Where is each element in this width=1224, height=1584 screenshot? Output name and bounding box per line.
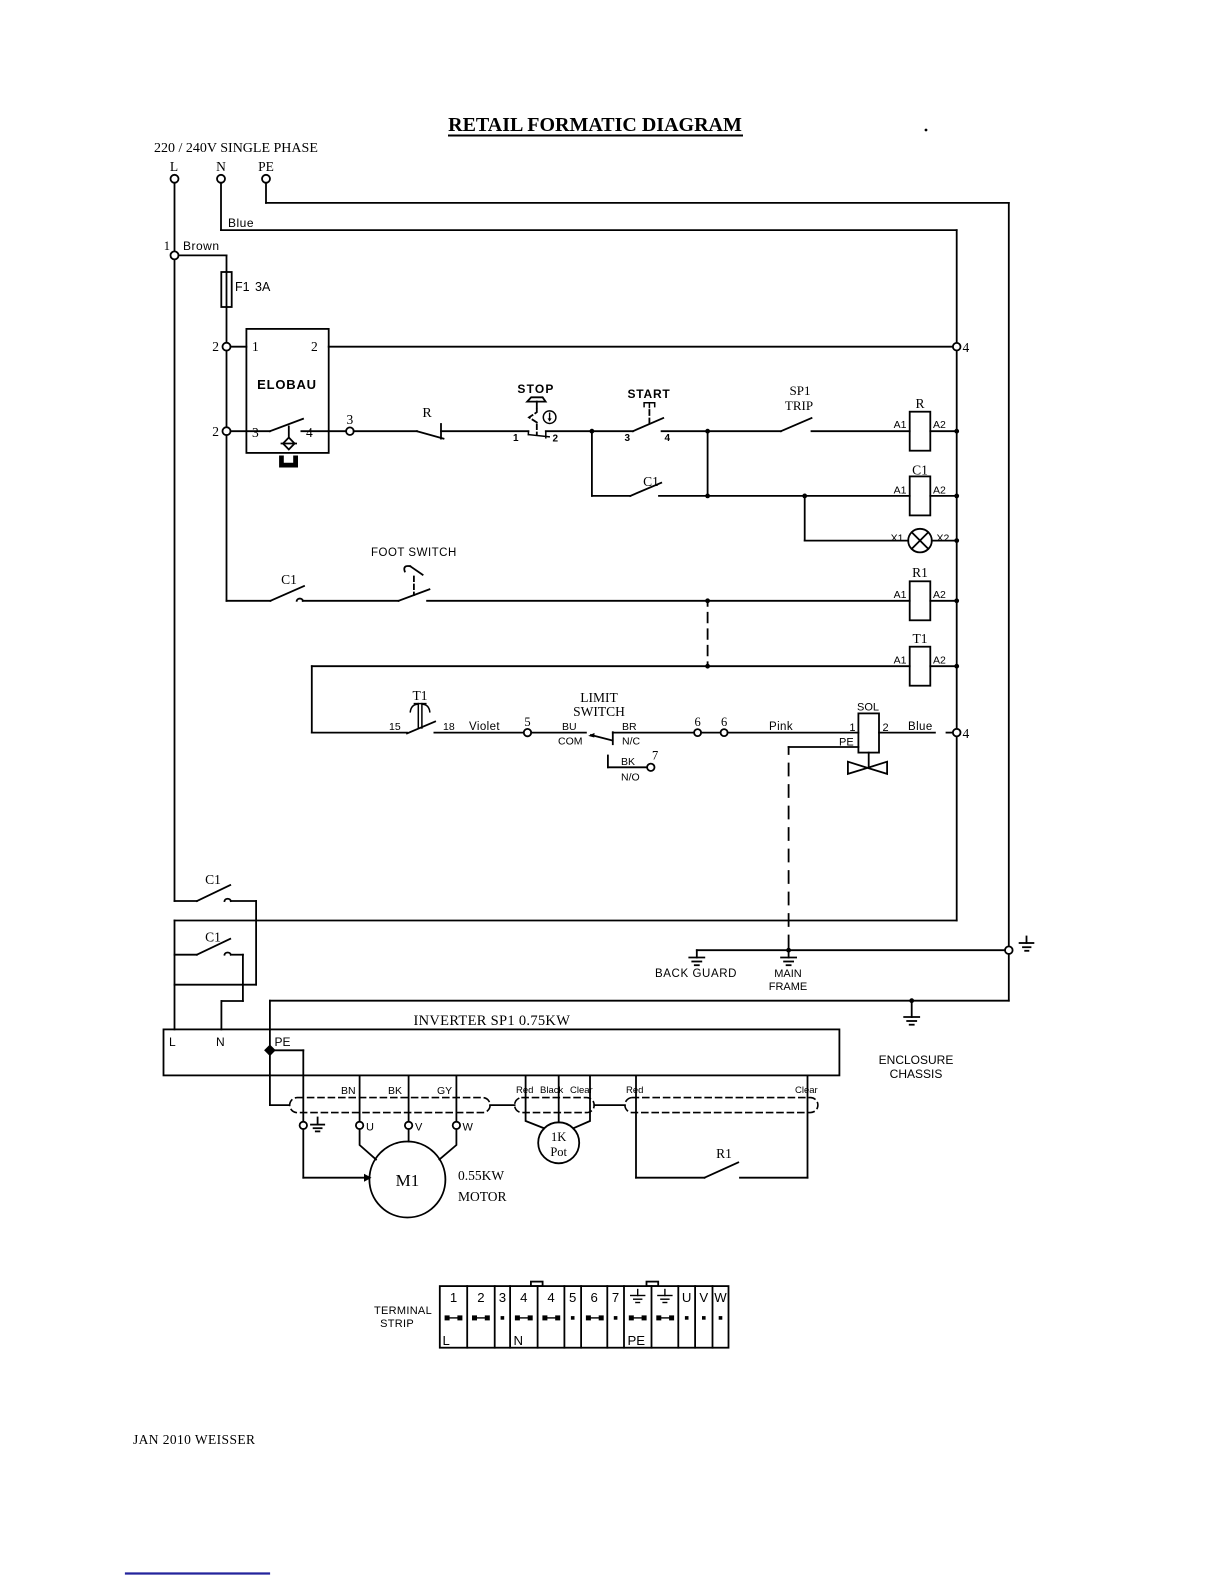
wire pot clear — [570, 1075, 593, 1128]
svg-text:CHASSIS: CHASSIS — [890, 1067, 943, 1081]
svg-text:TRIP: TRIP — [785, 398, 813, 413]
wire coil R to bus — [930, 430, 956, 432]
svg-text:2: 2 — [311, 339, 318, 354]
inverter SP1 box — [164, 1013, 840, 1075]
svg-text:BK: BK — [621, 756, 635, 768]
junction dot bus C1 — [954, 494, 959, 499]
svg-text:Pink: Pink — [769, 721, 793, 733]
wire C1b corner to N terminal — [221, 955, 243, 1030]
svg-text:C1: C1 — [205, 930, 221, 945]
contact C1 power b (NO) — [175, 930, 243, 955]
junction dot bus T1 — [954, 664, 959, 669]
svg-text:3: 3 — [499, 1290, 506, 1305]
svg-text:A1: A1 — [894, 419, 907, 431]
svg-text:COM: COM — [558, 736, 583, 748]
svg-text:JAN 2010 WEISSER: JAN 2010 WEISSER — [133, 1432, 255, 1447]
contact C1 power a (NO) — [175, 872, 257, 901]
wire coil C1 to bus — [930, 495, 956, 497]
svg-text:V: V — [699, 1290, 708, 1305]
svg-text:15: 15 — [389, 721, 401, 733]
terminal V — [405, 1122, 423, 1142]
svg-text:7: 7 — [612, 1290, 619, 1305]
svg-text:F1: F1 — [235, 280, 250, 294]
pushbutton START (NO) — [625, 387, 671, 444]
svg-text:R: R — [422, 406, 432, 421]
ground symbol right of PE circle — [1020, 937, 1034, 951]
svg-text:7: 7 — [652, 749, 658, 763]
svg-text:A1: A1 — [894, 655, 907, 667]
cable connector 3 — [625, 1098, 818, 1113]
node 6 terminal b — [721, 715, 728, 736]
node PE circle right — [1005, 946, 1013, 954]
wire L down to node — [174, 183, 176, 252]
svg-text:18: 18 — [443, 721, 455, 733]
wire fuse down to node 2 — [226, 307, 228, 343]
wire fuse line down to foot row — [227, 435, 271, 601]
svg-text:FOOT SWITCH: FOOT SWITCH — [371, 547, 457, 559]
safety diamond symbol — [282, 438, 297, 450]
svg-text:0.55KW: 0.55KW — [458, 1168, 504, 1183]
lamp X1 X2 — [891, 529, 950, 553]
wire C1 aux to coil C1 — [659, 495, 910, 497]
svg-text:GY: GY — [437, 1085, 452, 1097]
terminal strip label — [374, 1305, 432, 1330]
node 6 terminal a — [694, 715, 701, 736]
svg-text:V: V — [415, 1122, 423, 1134]
junction dot after STOP — [590, 429, 595, 434]
wire junction down to C1 aux rung — [591, 431, 593, 496]
svg-text:LIMIT: LIMIT — [580, 690, 618, 705]
wire right bus down to node 4 — [956, 230, 958, 343]
svg-text:STRIP: STRIP — [380, 1318, 414, 1330]
wire bus below node4 to long rung — [956, 736, 958, 920]
contact T1 timed (NO) — [389, 688, 455, 733]
magnet icon below ELOBAU — [279, 456, 298, 468]
svg-text:START: START — [627, 387, 670, 401]
svg-text:N: N — [216, 1035, 225, 1049]
svg-text:N/O: N/O — [621, 772, 640, 784]
svg-text:Brown: Brown — [183, 239, 220, 253]
svg-text:220 / 240V SINGLE PHASE: 220 / 240V SINGLE PHASE — [154, 141, 318, 156]
svg-text:1: 1 — [450, 1290, 457, 1305]
wire PE down — [265, 183, 267, 203]
svg-text:X2: X2 — [937, 533, 950, 545]
node 5 terminal — [524, 715, 531, 736]
wire SOL to node4 — [879, 732, 953, 734]
terminal N — [216, 159, 226, 183]
wire SP1 to coil R — [812, 430, 910, 432]
wire coil R1 to bus — [930, 600, 956, 602]
terminal strip box — [440, 1286, 729, 1348]
junction dot R1 rung — [705, 598, 710, 603]
svg-text:C1: C1 — [912, 463, 928, 478]
wire C1 to foot switch — [303, 600, 399, 602]
svg-text:SWITCH: SWITCH — [573, 704, 625, 719]
svg-text:2: 2 — [212, 424, 219, 439]
ground ENCLOSURE CHASSIS — [879, 1001, 954, 1081]
junction dot bus R1 — [954, 598, 959, 603]
svg-text:4: 4 — [665, 433, 671, 444]
svg-text:BN: BN — [341, 1085, 356, 1097]
cable connector 1 — [290, 1098, 490, 1113]
wire N down — [220, 183, 222, 230]
svg-text:FRAME: FRAME — [769, 981, 808, 993]
wire C1a corner down — [255, 901, 257, 985]
svg-text:T1: T1 — [413, 688, 428, 703]
wire limit to node6 — [613, 732, 694, 734]
svg-text:1: 1 — [252, 339, 259, 354]
wire T1 contact to node5 — [434, 732, 523, 734]
wire lamp branch down — [805, 496, 909, 541]
svg-text:3: 3 — [252, 425, 259, 440]
wire limit row left — [312, 732, 407, 734]
limit switch N/O branch — [608, 756, 647, 784]
svg-text:PE: PE — [628, 1333, 646, 1348]
svg-text:PE: PE — [258, 159, 274, 174]
limit switch contact — [558, 690, 641, 748]
svg-text:3A: 3A — [255, 280, 271, 294]
contact SP1 TRIP (NO) — [781, 383, 813, 431]
wire pin3 — [231, 430, 270, 432]
junction dot bus R — [954, 429, 959, 434]
motor M1 — [369, 1142, 506, 1218]
svg-text:Red: Red — [626, 1085, 643, 1096]
strip ground glyph cell 10 — [658, 1290, 672, 1303]
svg-text:3: 3 — [625, 433, 631, 444]
ground symbol at PE terminal — [311, 1118, 324, 1132]
junction dot after START — [705, 429, 710, 434]
svg-text:4: 4 — [547, 1290, 554, 1305]
svg-text:A2: A2 — [933, 655, 946, 667]
wire horizontal to L drop — [175, 984, 257, 986]
svg-text:BK: BK — [388, 1085, 402, 1097]
junction dot bus lamp — [954, 538, 959, 543]
terminal L — [170, 159, 179, 183]
svg-text:BR: BR — [622, 721, 637, 733]
svg-text:C1: C1 — [281, 572, 297, 587]
junction dot lamp branch — [802, 494, 807, 499]
title RETAIL FORMATIC DIAGRAM — [448, 114, 927, 136]
wire PE bus below circle — [1008, 954, 1010, 1001]
fuse F1 3A — [221, 272, 271, 307]
svg-text:Clear: Clear — [795, 1085, 818, 1096]
wire lamp to bus — [932, 540, 957, 542]
ground BACK GUARD — [655, 950, 737, 980]
wire START to SP1 trip — [662, 430, 781, 432]
svg-text:N: N — [216, 159, 226, 174]
wire bus below node4 — [956, 351, 958, 732]
strip bottom labels — [443, 1333, 646, 1348]
svg-text:X1: X1 — [891, 533, 904, 545]
wire coil T1 to bus — [930, 665, 956, 667]
wire SOL PE — [789, 746, 859, 748]
svg-text:R: R — [915, 396, 924, 411]
strip jumpers narrow cells — [501, 1316, 723, 1320]
wire PE return horizontal — [270, 1000, 1009, 1002]
terminal strip dividers — [467, 1286, 712, 1348]
wire PE conductor into cable — [270, 1050, 289, 1105]
coil R1 — [894, 565, 946, 620]
svg-text:1K: 1K — [551, 1130, 566, 1144]
terminal U — [356, 1122, 376, 1160]
svg-text:R1: R1 — [716, 1146, 732, 1161]
pushbutton STOP (NC, mushroom) — [513, 382, 559, 445]
node 3 terminal — [346, 412, 354, 435]
coil T1 — [894, 631, 946, 686]
junction dot T1 rung — [705, 664, 710, 669]
wire PE to motor frame — [303, 1129, 371, 1182]
svg-text:A2: A2 — [933, 419, 946, 431]
junction dot MAIN FRAME — [786, 948, 791, 953]
strip jumpers wide cells — [445, 1316, 673, 1320]
svg-text:INVERTER SP1 0.75KW: INVERTER SP1 0.75KW — [414, 1013, 571, 1029]
rung C1 aux: wire to contact — [592, 495, 630, 497]
svg-text:C1: C1 — [205, 872, 221, 887]
wire STOP to START — [546, 430, 633, 432]
svg-text:BU: BU — [562, 721, 577, 733]
wire node5 to limit switch — [531, 732, 586, 734]
svg-text:W: W — [714, 1290, 727, 1305]
svg-text:W: W — [463, 1122, 474, 1134]
terminal PE — [258, 159, 274, 183]
svg-text:T1: T1 — [913, 631, 928, 646]
svg-text:U: U — [366, 1122, 374, 1134]
node 7 terminal — [647, 749, 658, 772]
contact R (NC) — [417, 406, 444, 439]
svg-text:1: 1 — [164, 239, 170, 253]
junction PE diamond — [264, 1045, 276, 1057]
svg-text:L: L — [443, 1333, 450, 1348]
relay ELOBAU box — [246, 329, 328, 453]
coil C1 — [894, 463, 946, 516]
ground MAIN FRAME — [769, 950, 808, 993]
wire between node 2s — [226, 351, 228, 428]
wire PE bus down right side — [1008, 203, 1010, 947]
junction dot enclosure — [909, 998, 914, 1003]
wire node to fuse — [179, 255, 227, 272]
wire L drop to inverter — [174, 921, 176, 1030]
svg-text:SP1: SP1 — [790, 383, 811, 398]
wire T1 rung left corner down — [311, 666, 313, 732]
svg-text:SOL: SOL — [857, 702, 879, 714]
wire PE to chassis drop — [270, 1050, 303, 1121]
svg-text:6: 6 — [591, 1290, 598, 1305]
svg-text:Black: Black — [540, 1085, 563, 1096]
svg-text:4: 4 — [963, 340, 970, 355]
footer blue line — [126, 1572, 269, 1574]
cable connector 2 — [515, 1098, 595, 1113]
svg-text:2: 2 — [212, 339, 219, 354]
svg-text:4: 4 — [963, 726, 970, 741]
svg-text:4: 4 — [520, 1290, 527, 1305]
junction dot C1 rung left — [705, 494, 710, 499]
svg-text:1: 1 — [849, 722, 855, 734]
wire W phase — [437, 1075, 456, 1121]
terminal PE chassis circle — [300, 1122, 307, 1129]
node 4 upper — [953, 340, 970, 355]
wire node6 to SOL — [728, 732, 859, 734]
svg-text:ENCLOSURE: ENCLOSURE — [879, 1053, 954, 1067]
wire R to STOP — [441, 430, 528, 432]
wire pin1 — [231, 346, 247, 348]
svg-text:6: 6 — [694, 715, 700, 729]
node 2 lower — [212, 424, 230, 439]
svg-text:A1: A1 — [894, 589, 907, 601]
svg-text:L: L — [169, 1035, 176, 1049]
svg-text:Pot: Pot — [550, 1145, 567, 1159]
contact C1 foot row (NO) — [270, 572, 304, 601]
contact R1 (NO) — [705, 1146, 739, 1178]
node 1 Brown — [164, 239, 220, 259]
svg-text:RETAIL FORMATIC DIAGRAM: RETAIL FORMATIC DIAGRAM — [448, 114, 742, 136]
svg-text:N/C: N/C — [622, 736, 641, 748]
node 2 upper — [212, 339, 230, 354]
svg-text:6: 6 — [721, 715, 727, 729]
wire PE drop into box — [269, 1001, 271, 1051]
svg-text:3: 3 — [347, 412, 354, 427]
svg-text:A1: A1 — [894, 484, 907, 496]
wire T1 rung — [312, 665, 910, 667]
svg-text:ELOBAU: ELOBAU — [257, 377, 317, 392]
svg-text:STOP: STOP — [517, 382, 554, 396]
wire PE horizontal to right — [266, 202, 1009, 204]
wire L node down — [174, 259, 176, 901]
svg-text:A2: A2 — [933, 484, 946, 496]
wire foot switch to coil R1 — [427, 600, 910, 602]
terminal W — [439, 1122, 473, 1160]
wire long rung from bus — [175, 920, 957, 922]
wire pot red — [516, 1075, 544, 1128]
wire node6a to node6b — [701, 732, 721, 734]
svg-text:Violet: Violet — [469, 721, 500, 733]
svg-text:MOTOR: MOTOR — [458, 1189, 507, 1204]
wire pot black — [540, 1075, 563, 1122]
switch blade ELOBAU 3-4 — [270, 419, 303, 438]
wire node3 to R contact — [354, 430, 417, 432]
coil R — [894, 396, 946, 451]
contact C1 aux (NO) — [630, 474, 661, 496]
node 4 lower — [953, 726, 970, 741]
wire link connector1-2 — [490, 1104, 514, 1106]
svg-text:BACK GUARD: BACK GUARD — [655, 968, 737, 980]
wire pin4 out — [301, 430, 346, 432]
svg-text:5: 5 — [569, 1290, 576, 1305]
svg-text:4: 4 — [306, 425, 313, 440]
wire R1 clear — [740, 1075, 818, 1177]
svg-text:1: 1 — [513, 433, 519, 444]
wire junction down to C1 rung — [707, 431, 709, 496]
svg-text:2: 2 — [477, 1290, 484, 1305]
wire N blue horizontal to right bus — [221, 229, 957, 231]
solenoid SOL — [839, 702, 889, 753]
wire R1 red — [626, 1075, 705, 1177]
svg-text:5: 5 — [524, 715, 530, 729]
svg-text:PE: PE — [275, 1035, 291, 1049]
dashed PE line down — [788, 747, 790, 948]
strip ground glyph cell 9 — [631, 1290, 645, 1303]
svg-text:Blue: Blue — [908, 721, 933, 733]
svg-text:R1: R1 — [912, 565, 928, 580]
svg-text:Blue: Blue — [228, 216, 254, 230]
strip cell numbers — [450, 1290, 727, 1305]
svg-text:TERMINAL: TERMINAL — [374, 1305, 432, 1317]
svg-text:MAIN: MAIN — [774, 968, 802, 980]
svg-text:N: N — [514, 1333, 524, 1348]
svg-text:U: U — [682, 1290, 692, 1305]
wire link connector2-3 — [594, 1104, 625, 1106]
wire ground row — [697, 949, 1005, 951]
svg-text:L: L — [170, 159, 178, 174]
svg-text:A2: A2 — [933, 589, 946, 601]
foot switch — [371, 547, 457, 601]
svg-text:M1: M1 — [396, 1171, 420, 1190]
dashed link down to T1 rung — [707, 601, 709, 666]
potentiometer 1K — [538, 1122, 579, 1163]
strip top tabs — [531, 1282, 658, 1287]
wire pin2 to bus — [329, 346, 953, 348]
svg-text:2: 2 — [553, 434, 559, 445]
wire U phase — [341, 1075, 360, 1121]
valve symbol below SOL — [848, 753, 887, 774]
wire V phase — [388, 1075, 409, 1121]
